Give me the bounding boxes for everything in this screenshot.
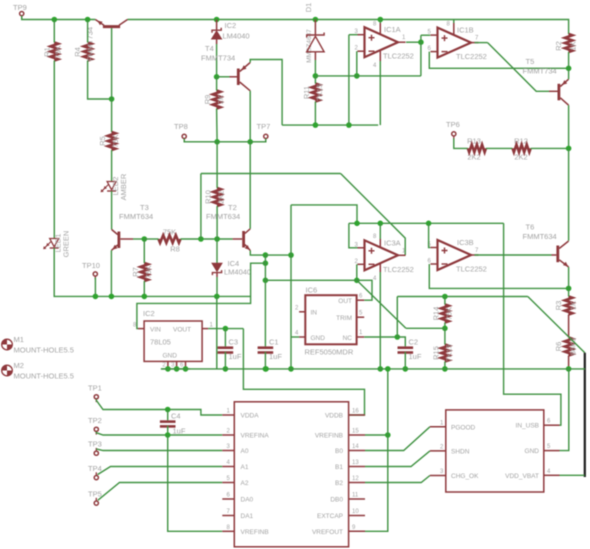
wire IC1A + input bbox=[349, 34, 358, 36]
svg-text:TP5: TP5 bbox=[88, 490, 102, 499]
pin IC6 right pin 5 TRIM bbox=[357, 316, 365, 318]
svg-text:4: 4 bbox=[373, 276, 377, 282]
node D1 junction bbox=[313, 73, 319, 79]
node gnd riser junction bbox=[385, 366, 391, 372]
wire node A row y125 bbox=[282, 124, 378, 126]
svg-text:IC3B: IC3B bbox=[457, 238, 474, 247]
wire IC6 pin1 to C2 node bbox=[364, 336, 397, 338]
svg-text:GREEN: GREEN bbox=[62, 231, 71, 258]
IC charger box bbox=[446, 410, 544, 492]
svg-text:R14: R14 bbox=[431, 307, 440, 321]
wire diagonal to T5 base bbox=[488, 43, 549, 92]
svg-text:7: 7 bbox=[475, 36, 479, 42]
svg-text:FMMT734: FMMT734 bbox=[201, 54, 235, 63]
node rail/IC3A pin8 junction bbox=[378, 221, 384, 227]
pin IC6 right pin 6 OUT bbox=[357, 299, 365, 301]
svg-text:LM4040: LM4040 bbox=[224, 268, 251, 277]
node C4 top junction bbox=[165, 407, 171, 413]
resistor R11 bbox=[312, 84, 320, 102]
svg-text:C1: C1 bbox=[269, 338, 279, 347]
test point TP3 bbox=[94, 451, 98, 455]
svg-text:C2: C2 bbox=[409, 338, 419, 347]
node junction supply column x250 bbox=[247, 139, 253, 145]
IC DAC box bbox=[234, 402, 348, 547]
resistor R10 bbox=[213, 188, 221, 206]
node rail riser junction bbox=[354, 221, 360, 227]
wire IC3A pin4 down to GND rail bbox=[379, 272, 381, 369]
test point TP5 bbox=[94, 501, 98, 505]
wire IC1A output to riser bbox=[406, 41, 421, 43]
wire TP4 to DAC pin4 bbox=[98, 467, 223, 475]
svg-text:GND: GND bbox=[311, 335, 326, 342]
pin DAC left 7 DA1 bbox=[222, 515, 234, 517]
node IC4 ground junction bbox=[214, 294, 220, 300]
wire emitter node to VREF riser bbox=[265, 254, 291, 256]
wire IC2 GND pins to rail bbox=[161, 368, 190, 370]
svg-text:VDDB: VDDB bbox=[325, 413, 343, 420]
node rail junction D1 bbox=[313, 17, 319, 23]
wire R2 bottom bbox=[568, 52, 570, 68]
svg-text:78L05: 78L05 bbox=[150, 338, 171, 347]
svg-text:M2: M2 bbox=[14, 361, 24, 370]
pin DAC right 16 VDDB bbox=[349, 414, 365, 416]
node T3 emitter junction bbox=[109, 294, 115, 300]
svg-text:8: 8 bbox=[373, 234, 377, 240]
wire R3 top bbox=[568, 288, 570, 296]
node TP10 junction bbox=[93, 294, 99, 300]
wire IC1A feedback y76 bbox=[315, 75, 421, 77]
node C4 bottom junction bbox=[165, 432, 171, 438]
wire R12 right bbox=[531, 147, 569, 149]
svg-text:R7: R7 bbox=[131, 267, 140, 277]
pin DAC right 15 VREFINB bbox=[349, 434, 365, 436]
svg-text:TP9: TP9 bbox=[13, 3, 27, 12]
wire T3 emitter to ground row bbox=[110, 250, 112, 296]
wire divider output row y296 bbox=[397, 296, 528, 298]
test point TP6 bbox=[452, 132, 456, 136]
svg-text:TP3: TP3 bbox=[88, 440, 102, 449]
resistor R5 bbox=[108, 132, 116, 150]
svg-text:FMMT734: FMMT734 bbox=[523, 67, 557, 76]
node IC2 gnd junctions bbox=[165, 366, 171, 372]
wire TP10 bbox=[94, 278, 96, 297]
svg-text:7K15: 7K15 bbox=[315, 84, 324, 102]
svg-text:IC1B: IC1B bbox=[457, 26, 474, 35]
wire IC1B output bbox=[475, 42, 488, 44]
svg-text:1: 1 bbox=[440, 420, 444, 426]
svg-text:VREFINB: VREFINB bbox=[315, 433, 343, 440]
pin DAC right 14 B0 bbox=[349, 450, 365, 452]
transistor T1 bbox=[103, 25, 120, 28]
wire DAC pin13 to charger pin2 bbox=[365, 451, 430, 467]
wire IC1B - input feedback bbox=[429, 52, 568, 69]
node R2 bottom junction bbox=[566, 66, 572, 72]
svg-text:B2: B2 bbox=[335, 480, 343, 487]
svg-text:CHG_OK: CHG_OK bbox=[451, 473, 479, 480]
svg-text:2K2: 2K2 bbox=[217, 190, 226, 203]
wire DAC pin14 to charger pin1 bbox=[365, 427, 430, 451]
svg-text:FMMT634: FMMT634 bbox=[119, 212, 153, 221]
resistor R2 bbox=[565, 34, 573, 52]
svg-text:2: 2 bbox=[227, 429, 231, 435]
wire R8 left bbox=[144, 238, 158, 240]
svg-text:14: 14 bbox=[352, 444, 359, 450]
svg-text:MOUNT-HOLE5.5: MOUNT-HOLE5.5 bbox=[14, 346, 74, 355]
wire IC1A pin4 down to y125 bbox=[379, 61, 381, 125]
pin IC3A pin8 power bbox=[379, 239, 381, 247]
svg-text:GND: GND bbox=[525, 448, 540, 455]
wire IC4 to ground row bbox=[216, 277, 218, 296]
svg-text:1uF: 1uF bbox=[173, 427, 186, 436]
wire VIN feed from emitter node bbox=[137, 263, 266, 328]
wire R7 bottom bbox=[143, 281, 145, 296]
svg-text:T2: T2 bbox=[228, 203, 237, 212]
svg-text:6: 6 bbox=[227, 493, 231, 499]
svg-text:3: 3 bbox=[440, 469, 444, 475]
wire T4 emitter to node A bbox=[250, 60, 282, 126]
test point TP2 bbox=[94, 427, 98, 431]
wire reference node row y280 bbox=[265, 280, 372, 300]
svg-text:7K15: 7K15 bbox=[444, 344, 453, 362]
pin DAC left 2 VREFINA bbox=[222, 434, 234, 436]
node C1 ground junction bbox=[263, 366, 269, 372]
wire x568 down to T6 collector bbox=[568, 148, 570, 240]
svg-text:DA0: DA0 bbox=[241, 497, 254, 504]
wire TP1 to DAC pin1 bbox=[96, 399, 222, 415]
pin IC3A pin4 power bbox=[379, 263, 381, 272]
svg-text:11: 11 bbox=[352, 493, 359, 499]
pin IC2 GND stubs bbox=[167, 361, 169, 366]
op-amp IC1A TLC2252 bbox=[365, 27, 399, 57]
pin DAC right 13 B1 bbox=[349, 466, 365, 468]
svg-text:FMMT634: FMMT634 bbox=[206, 212, 240, 221]
op-amp IC1B TLC2252 bbox=[438, 28, 472, 58]
svg-text:R15: R15 bbox=[431, 346, 440, 360]
svg-text:TP6: TP6 bbox=[446, 120, 460, 129]
pin IC1B pin8 power bbox=[453, 23, 455, 35]
LED LED1 GREEN bbox=[50, 239, 59, 247]
wire IC6 GND pin to riser bbox=[291, 336, 299, 338]
wire IC1A - input down bbox=[356, 51, 358, 76]
wire T1 base down bbox=[111, 28, 113, 132]
wire DAC pin12 to charger pin3 bbox=[365, 476, 430, 483]
wire T6 emitter down bbox=[568, 267, 570, 288]
wire C2 node to cap bbox=[397, 337, 405, 346]
wire rail down right to x503 bbox=[504, 223, 561, 425]
node T2 emitter junction 2 bbox=[263, 260, 269, 266]
svg-text:IC1A: IC1A bbox=[384, 25, 401, 34]
pin DAC left 3 A0 bbox=[222, 450, 234, 452]
node IC3A - junction bbox=[354, 278, 360, 284]
svg-text:TP10: TP10 bbox=[82, 261, 100, 270]
svg-text:R5: R5 bbox=[98, 136, 107, 146]
op-amp IC3A TLC2252 bbox=[365, 240, 399, 270]
wire C4 node down to pin8 bbox=[168, 435, 223, 531]
test point TP4 bbox=[94, 476, 98, 480]
svg-text:R2: R2 bbox=[554, 41, 563, 51]
wire IC3B + input from rail bbox=[429, 223, 431, 247]
svg-text:2K: 2K bbox=[216, 95, 225, 104]
svg-text:IC6: IC6 bbox=[306, 286, 318, 295]
svg-text:2K2: 2K2 bbox=[514, 153, 527, 162]
svg-text:PGOOD: PGOOD bbox=[451, 424, 476, 431]
resistor R4 bbox=[84, 43, 92, 61]
svg-text:T3: T3 bbox=[140, 203, 149, 212]
wire R3 bottom to R6 bbox=[568, 315, 570, 338]
test point TP1 bbox=[94, 395, 98, 399]
svg-text:5: 5 bbox=[359, 311, 363, 317]
node junction R12/T5 column bbox=[566, 146, 572, 152]
wire LED1 to ground row bbox=[54, 248, 251, 296]
svg-text:VIN: VIN bbox=[150, 327, 161, 334]
wire battery black line bbox=[584, 353, 586, 477]
wire R8 right to T2 base bbox=[181, 238, 233, 240]
pin DAC left 5 A2 bbox=[222, 482, 234, 484]
wire R10 bottom bbox=[216, 206, 218, 239]
svg-text:1: 1 bbox=[227, 409, 231, 415]
wire y173 to diagonal bbox=[201, 173, 341, 175]
node R15 ground junction bbox=[442, 366, 448, 372]
svg-text:M1: M1 bbox=[14, 335, 24, 344]
node C3 ground junction bbox=[223, 366, 229, 372]
svg-text:AMBER: AMBER bbox=[119, 173, 128, 200]
wire x217 down to GND rail bbox=[216, 296, 218, 369]
pin DAC right 10 EXTCAP bbox=[349, 515, 365, 517]
wire R13 to R12 bbox=[486, 147, 513, 149]
node IC1A - junction bbox=[354, 73, 360, 79]
svg-text:R9: R9 bbox=[203, 95, 212, 105]
svg-text:TLC2252: TLC2252 bbox=[456, 52, 487, 61]
pin DAC right 11 DB0 bbox=[349, 498, 365, 500]
pin charger right GND bbox=[544, 450, 560, 452]
svg-text:MOUNT-HOLE5.5: MOUNT-HOLE5.5 bbox=[14, 372, 74, 381]
svg-text:A0: A0 bbox=[241, 448, 249, 455]
svg-text:13: 13 bbox=[352, 460, 359, 466]
wire diagonal divider feedback bbox=[357, 280, 406, 328]
resistor R7 bbox=[141, 263, 149, 281]
mount hole M2 bbox=[2, 365, 13, 376]
svg-text:FMMT734: FMMT734 bbox=[85, 27, 94, 61]
resistor R1 bbox=[51, 43, 59, 61]
svg-text:4: 4 bbox=[547, 469, 551, 475]
svg-text:5: 5 bbox=[547, 444, 551, 450]
pin IC6 left pin 4 GND bbox=[299, 336, 305, 338]
svg-text:4: 4 bbox=[373, 63, 377, 69]
svg-text:DB0: DB0 bbox=[330, 497, 343, 504]
svg-text:6: 6 bbox=[547, 419, 551, 425]
node junction R4/T1 base bbox=[109, 96, 115, 102]
svg-text:B1: B1 bbox=[335, 464, 343, 471]
node gnd junction C1 col bbox=[263, 366, 269, 372]
svg-text:3: 3 bbox=[227, 444, 231, 450]
wire GND rail bbox=[161, 368, 585, 370]
node R14 top junction bbox=[442, 294, 448, 300]
wire R1 bottom to LED1 bbox=[53, 61, 55, 239]
wire R8 riser up x201 bbox=[200, 174, 202, 240]
svg-text:VDD_VBAT: VDD_VBAT bbox=[505, 473, 539, 480]
pin IC2 VOUT stub bbox=[202, 328, 208, 330]
node junction T2 base / R10 / IC4 bbox=[214, 236, 220, 242]
test point TP7 bbox=[264, 134, 268, 138]
wire T2 emitter to node bbox=[250, 251, 265, 256]
pin DAC left 1 VDDA bbox=[222, 414, 234, 416]
wire charger GND to rail riser bbox=[560, 369, 569, 451]
svg-text:REF5050MDR: REF5050MDR bbox=[305, 348, 354, 357]
svg-text:EXTCAP: EXTCAP bbox=[317, 513, 343, 520]
wire VOUT to C3 bbox=[208, 328, 243, 330]
pin DAC right 9 VREFOUT bbox=[349, 530, 365, 532]
svg-text:4: 4 bbox=[295, 331, 299, 337]
svg-text:1: 1 bbox=[402, 35, 406, 41]
pin DAC left 8 VREFINB bbox=[222, 530, 234, 532]
wire R4 bottom to T1 base line bbox=[88, 61, 112, 100]
wire C2 node up to divider row bbox=[396, 297, 398, 338]
node R11 junction y125 bbox=[313, 122, 319, 128]
wire to IC1B + input bbox=[421, 34, 430, 36]
svg-text:16: 16 bbox=[352, 409, 359, 415]
svg-text:VDDA: VDDA bbox=[241, 413, 260, 420]
pin charger left 3 CHG_OK bbox=[430, 475, 446, 477]
wire TP2 to DAC pin2 bbox=[96, 432, 222, 435]
node junction C3 top bbox=[223, 326, 229, 332]
wire T4 collector down bbox=[249, 91, 251, 142]
svg-text:8: 8 bbox=[447, 22, 451, 28]
wire IC3A + input from rail bbox=[349, 223, 358, 248]
node T6 emitter junction bbox=[566, 286, 572, 292]
wire TP3 to DAC pin3 bbox=[96, 449, 222, 451]
svg-text:SHDN: SHDN bbox=[451, 448, 470, 455]
node IC3A pin4 gnd junction bbox=[378, 366, 384, 372]
wire DAC pin15 gnd riser bbox=[365, 434, 388, 436]
svg-text:9: 9 bbox=[352, 525, 356, 531]
pin DAC left 6 DA0 bbox=[222, 498, 234, 500]
node IC1A + junction y125 bbox=[346, 122, 352, 128]
wire TP6 down bbox=[454, 138, 468, 148]
svg-text:7: 7 bbox=[227, 509, 231, 515]
pin IC1A pin8 power bbox=[379, 23, 381, 34]
wire R5 to LED2 bbox=[111, 150, 113, 182]
svg-text:VREFINB: VREFINB bbox=[241, 529, 269, 536]
svg-text:7: 7 bbox=[475, 248, 479, 254]
resistor R6 bbox=[565, 338, 573, 356]
pin DAC left 4 A1 bbox=[222, 466, 234, 468]
svg-text:TRIM: TRIM bbox=[336, 315, 352, 322]
svg-text:T6: T6 bbox=[526, 223, 535, 232]
svg-text:15: 15 bbox=[352, 429, 359, 435]
node T2 emitter junction 1 bbox=[263, 252, 269, 258]
wire x250 down to T2 collector bbox=[249, 142, 251, 229]
wire VREF riser x291 bbox=[290, 205, 292, 369]
svg-text:TP7: TP7 bbox=[257, 122, 271, 131]
svg-text:IC3A: IC3A bbox=[384, 238, 401, 247]
svg-text:75K: 75K bbox=[444, 307, 453, 320]
svg-text:IN_USB: IN_USB bbox=[516, 423, 539, 430]
node VREF riser ground junction bbox=[288, 366, 294, 372]
op-amp IC3B TLC2252 bbox=[438, 240, 472, 270]
wire IC2 zener to T4 base node bbox=[216, 44, 218, 77]
svg-text:75K: 75K bbox=[54, 45, 63, 58]
test point TP8 bbox=[182, 134, 186, 138]
wire R4 top bbox=[87, 20, 89, 43]
node rail junction R4 bbox=[85, 17, 91, 23]
svg-text:5: 5 bbox=[227, 476, 231, 482]
node rail/IC3B + junction bbox=[426, 221, 432, 227]
pin charger left 1 PGOOD bbox=[430, 426, 446, 428]
wire IC3B output to T6 base bbox=[475, 254, 552, 256]
resistor R14 bbox=[441, 305, 449, 323]
test point TP10 bbox=[93, 272, 97, 276]
wire T5 collector down bbox=[568, 105, 570, 148]
svg-text:IN: IN bbox=[311, 310, 318, 317]
svg-text:TLC2252: TLC2252 bbox=[383, 52, 414, 61]
node rail junction R1 bbox=[52, 17, 58, 23]
resistor R15 bbox=[441, 345, 449, 362]
svg-text:10: 10 bbox=[352, 509, 359, 515]
pin charger left 2 SHDN bbox=[430, 450, 446, 452]
svg-text:R6: R6 bbox=[554, 342, 563, 352]
wire R1 top bbox=[53, 20, 55, 43]
wire R9 top bbox=[216, 77, 218, 91]
svg-text:VREFOUT: VREFOUT bbox=[312, 529, 343, 536]
svg-text:12: 12 bbox=[352, 476, 359, 482]
wire emitter node down to C1 bbox=[264, 255, 266, 346]
wire IC3B - input feedback bbox=[429, 264, 568, 288]
svg-text:1K: 1K bbox=[568, 41, 577, 50]
svg-text:75K: 75K bbox=[144, 265, 153, 278]
svg-text:TP8: TP8 bbox=[174, 122, 188, 131]
svg-text:C4: C4 bbox=[171, 412, 181, 421]
wire R10 top bbox=[216, 142, 218, 188]
wire R11 top bbox=[314, 76, 316, 84]
wire top supply rail bbox=[22, 16, 96, 20]
svg-text:TLC2252: TLC2252 bbox=[456, 265, 487, 274]
svg-text:DA1: DA1 bbox=[241, 513, 254, 520]
svg-text:R3: R3 bbox=[554, 301, 563, 311]
wire top rail right of T1 bbox=[128, 20, 569, 35]
wire LED2 to T3 collector bbox=[111, 191, 113, 230]
svg-text:1: 1 bbox=[359, 330, 363, 336]
wire D1 anode to node bbox=[314, 60, 316, 76]
pin IC2 VIN stub bbox=[138, 328, 144, 330]
svg-text:OUT: OUT bbox=[338, 298, 352, 305]
node junction T3 base / R7 / R8 bbox=[142, 236, 148, 242]
pin charger right VDD_VBAT bbox=[544, 474, 560, 476]
wire R6 bottom bbox=[568, 356, 570, 369]
wire riser x421 bbox=[420, 35, 422, 76]
node junction R8 / feedback riser bbox=[198, 236, 204, 242]
svg-text:2: 2 bbox=[295, 306, 299, 312]
svg-text:VREFINA: VREFINA bbox=[241, 433, 270, 440]
wire riser top to op-amp rail bbox=[291, 205, 357, 223]
pin IC6 left pin 2 bbox=[299, 311, 305, 313]
svg-text:NC: NC bbox=[343, 335, 353, 342]
wire IC3A pin8 up to rail bbox=[379, 223, 381, 239]
svg-text:6: 6 bbox=[359, 294, 363, 300]
svg-text:R13: R13 bbox=[467, 137, 481, 146]
wire charger VDD_VBAT to battery line bbox=[560, 474, 585, 476]
wire IC3A - input down bbox=[356, 264, 358, 280]
svg-text:1K: 1K bbox=[568, 301, 577, 310]
node C2 top junction bbox=[395, 334, 401, 340]
wire divider mid row bbox=[406, 327, 445, 329]
mount hole M1 bbox=[2, 339, 13, 350]
svg-text:8: 8 bbox=[373, 22, 377, 28]
svg-text:A1: A1 bbox=[241, 464, 249, 471]
node R7 ground junction bbox=[142, 294, 148, 300]
pin IC6 right pin 1 bbox=[357, 336, 365, 338]
wire VOUT to DAC VDD bbox=[243, 329, 364, 415]
svg-text:VOUT: VOUT bbox=[173, 327, 191, 334]
